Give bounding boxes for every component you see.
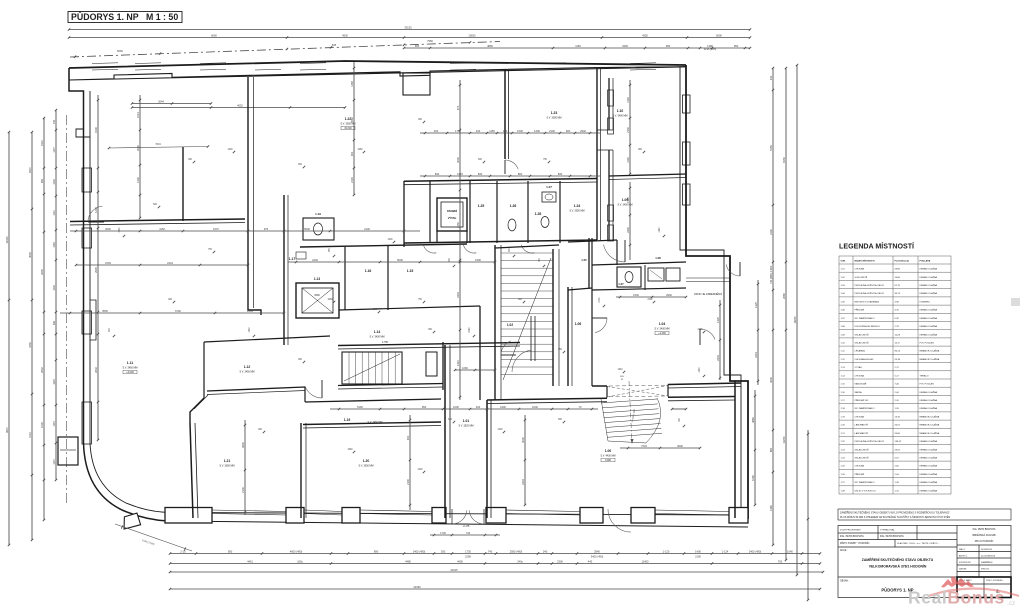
angled pillar at curve end	[122, 513, 141, 529]
svg-text:4461: 4461	[247, 559, 253, 563]
svg-text:PLUS MÍNUS 50 MM S OHLEDEM NA: PLUS MÍNUS 50 MM S OHLEDEM NA SKUTEČNÉ T…	[840, 516, 950, 519]
svg-text:1425: 1425	[754, 302, 758, 308]
svg-text:KERAM. DLAŽBA: KERAM. DLAŽBA	[920, 399, 938, 402]
svg-text:1.26: 1.26	[510, 204, 517, 208]
svg-text:2440: 2440	[626, 227, 630, 233]
svg-text:4860: 4860	[487, 44, 493, 48]
windows right wing inner wall	[608, 90, 614, 106]
svg-text:7019: 7019	[155, 143, 161, 146]
svg-text:NÁZEV MÍSTNOSTI: NÁZEV MÍSTNOSTI	[855, 260, 875, 263]
left dim 4	[55, 110, 57, 480]
svg-text:240: 240	[543, 549, 548, 553]
svg-text:830: 830	[558, 172, 563, 176]
window bottom wall 212-286	[212, 510, 286, 512]
svg-text:1900: 1900	[500, 405, 506, 409]
svg-text:26,80: 26,80	[895, 433, 901, 435]
door 1.12	[305, 386, 322, 398]
svg-text:830: 830	[435, 172, 440, 176]
stair walk line	[629, 381, 632, 444]
wall bottom of small rooms row	[404, 240, 597, 243]
window in facade at x=450	[450, 62, 476, 65]
svg-text:2905: 2905	[40, 269, 44, 275]
svg-text:PŘEDSÍŇ: PŘEDSÍŇ	[855, 309, 865, 312]
wall below 1.12	[207, 387, 305, 391]
door 1.22-1.23	[505, 160, 518, 169]
left dim overall	[8, 132, 10, 545]
svg-text:4505: 4505	[28, 252, 32, 258]
svg-text:7234: 7234	[641, 444, 647, 448]
svg-text:6307: 6307	[28, 167, 32, 173]
svg-text:29,02: 29,02	[895, 449, 901, 451]
svg-text:1637: 1637	[213, 227, 219, 231]
svg-text:860: 860	[518, 172, 523, 176]
svg-text:2644: 2644	[158, 99, 164, 103]
svg-text:950: 950	[422, 405, 427, 409]
svg-text:S.V. 3400 MM: S.V. 3400 MM	[655, 328, 670, 331]
svg-text:4350: 4350	[642, 33, 648, 37]
svg-text:OZN.: OZN.	[841, 261, 847, 263]
bottom dim 1	[170, 553, 820, 555]
windows in right outer wall	[683, 95, 691, 113]
svg-text:2100: 2100	[697, 329, 703, 331]
svg-text:4.750: 4.750	[382, 341, 389, 344]
fan staircase flight below opening	[601, 398, 662, 443]
svg-text:KERAM. DLAŽBA: KERAM. DLAŽBA	[920, 448, 938, 451]
left wall niche 2	[90, 300, 96, 340]
top dim 2	[69, 37, 750, 39]
svg-text:ARCH Č.: ARCH Č.	[959, 554, 968, 557]
svg-text:1625: 1625	[53, 379, 56, 385]
svg-text:KERAM. DLAŽBA: KERAM. DLAŽBA	[920, 292, 938, 295]
svg-text:1158: 1158	[350, 81, 354, 87]
svg-text:1242: 1242	[94, 207, 98, 213]
svg-text:11400: 11400	[641, 559, 649, 563]
svg-text:105y: 105y	[297, 559, 303, 563]
window in facade at x=200	[200, 62, 226, 65]
svg-text:1.16: 1.16	[365, 269, 372, 273]
svg-text:ČÍSLO VÝKRESU: ČÍSLO VÝKRESU	[986, 579, 1003, 582]
svg-text:KERAM. DLAŽBA: KERAM. DLAŽBA	[920, 407, 938, 410]
red swoosh	[928, 589, 1019, 597]
svg-text:13820: 13820	[468, 33, 476, 37]
left dim 2	[31, 132, 33, 540]
wall top of small rooms row	[404, 179, 597, 182]
svg-text:2602: 2602	[94, 367, 98, 373]
svg-text:1900: 1900	[53, 285, 56, 291]
elevator shaft 1.13	[296, 283, 339, 318]
svg-text:1150: 1150	[575, 44, 581, 48]
pillar bottom x=165	[165, 508, 212, 524]
svg-text:VLASTNÍK : P.H.D., a.s., TEXTI: VLASTNÍK : P.H.D., a.s., TEXTIL-ODĚVY-..…	[897, 542, 940, 545]
svg-text:KANCELÁŘ: KANCELÁŘ	[855, 383, 867, 386]
svg-text:SKLAD ZBOŽÍ: SKLAD ZBOŽÍ	[855, 342, 870, 345]
right dim 2	[772, 68, 774, 545]
window in facade at x=92	[92, 62, 118, 65]
door in 1.04 left wall	[700, 329, 715, 340]
svg-text:1335: 1335	[626, 197, 630, 203]
svg-text:MRAMOR. DLAŽBA: MRAMOR. DLAŽBA	[920, 358, 940, 361]
svg-text:2150: 2150	[456, 222, 460, 228]
svg-text:1014: 1014	[136, 112, 140, 118]
svg-text:1060: 1060	[357, 149, 363, 151]
svg-text:S.V. 3000 MM: S.V. 3000 MM	[220, 465, 235, 468]
svg-text:980: 980	[40, 178, 44, 183]
right dim 1	[757, 280, 759, 385]
svg-text:13,45: 13,45	[895, 416, 901, 418]
outer wall: left side	[69, 68, 84, 443]
svg-text:1400: 1400	[497, 429, 503, 431]
window in facade at x=300	[300, 62, 326, 65]
svg-text:5150: 5150	[769, 145, 773, 151]
svg-text:PLOCHA (m2): PLOCHA (m2)	[895, 260, 910, 263]
wall between 1.21 and 1.20	[300, 423, 302, 518]
svg-text:4000: 4000	[769, 377, 773, 383]
svg-text:1400: 1400	[699, 367, 701, 373]
svg-text:1400: 1400	[695, 549, 701, 553]
svg-text:2140: 2140	[769, 229, 773, 235]
window bottom wall 506-580	[506, 510, 580, 512]
svg-text:1060: 1060	[347, 449, 353, 451]
svg-text:100: 100	[503, 129, 508, 133]
svg-text:KERAM. DLAŽBA: KERAM. DLAŽBA	[920, 481, 938, 484]
main entrance double door	[453, 510, 467, 524]
svg-text:KERAM. DLAŽBA: KERAM. DLAŽBA	[920, 457, 938, 460]
svg-text:ZAMĚŘENÍ: ZAMĚŘENÍ	[981, 561, 993, 564]
pillar bottom x=580	[580, 508, 603, 524]
svg-text:2100: 2100	[406, 479, 410, 485]
dashed opening above fan stairs	[607, 386, 668, 398]
svg-text:1100: 1100	[626, 157, 630, 163]
svg-text:ÚKLID S VÝLEVKOU: ÚKLID S VÝLEVKOU	[855, 489, 876, 492]
svg-text:7950: 7950	[427, 39, 433, 43]
svg-text:S.V. 3000 MM: S.V. 3000 MM	[570, 210, 585, 213]
svg-text:VYPRACOVAL: VYPRACOVAL	[880, 529, 895, 532]
door from corridor 1.06 into 1.04	[595, 318, 607, 333]
svg-text:PVC PODLAH.: PVC PODLAH.	[920, 383, 935, 386]
svg-text:S.V. 3450 MM: S.V. 3450 MM	[368, 421, 383, 424]
chimney block below facade	[403, 73, 430, 95]
curved bottom-left wall inner	[90, 91, 170, 513]
svg-text:ZAMĚŘENÍ SKUTEČNÉHO STAVU OBJE: ZAMĚŘENÍ SKUTEČNÉHO STAVU OBJEKTU	[862, 557, 934, 562]
svg-text:KERAM. DLAŽBA: KERAM. DLAŽBA	[920, 325, 938, 328]
svg-text:1240: 1240	[617, 369, 623, 371]
svg-text:1240: 1240	[659, 227, 661, 233]
svg-text:1150: 1150	[489, 129, 495, 133]
diagonal wall	[190, 398, 204, 423]
svg-text:LABORATOŘ: LABORATOŘ	[855, 424, 869, 427]
door in wall y=221 left	[88, 206, 103, 222]
window bottom wall 655-729	[655, 510, 729, 512]
svg-text:S.V. 3450 MM: S.V. 3450 MM	[240, 371, 255, 374]
left wall niche	[76, 129, 90, 137]
svg-text:ZAMĚŘENÍ SKUTEČNÉHO STAVU OBJE: ZAMĚŘENÍ SKUTEČNÉHO STAVU OBJEKTU BYLO P…	[840, 512, 950, 515]
svg-text:AKCE :: AKCE :	[840, 549, 848, 552]
svg-text:2400 (490): 2400 (490)	[749, 549, 762, 553]
svg-text:CHODBA: CHODBA	[855, 268, 865, 271]
svg-text:450: 450	[53, 119, 56, 124]
door at stair bottom	[512, 350, 531, 372]
svg-text:BRNĚNSKÁ 4104/14B: BRNĚNSKÁ 4104/14B	[972, 534, 996, 537]
svg-text:5600: 5600	[716, 33, 722, 37]
svg-text:1.25: 1.25	[478, 204, 485, 208]
svg-text:1060: 1060	[327, 299, 333, 301]
svg-text:1.02: 1.02	[507, 323, 513, 327]
svg-text:4480: 4480	[405, 559, 411, 563]
red roofs logo	[941, 576, 974, 588]
svg-text:860: 860	[769, 447, 773, 452]
svg-text:1.07: 1.07	[618, 282, 624, 286]
svg-text:SKLAD ZBOŽÍ: SKLAD ZBOŽÍ	[855, 333, 870, 336]
door arc at bottom right entrance	[608, 509, 631, 532]
svg-text:10250: 10250	[782, 436, 786, 444]
svg-text:KERAM. DLAŽBA: KERAM. DLAŽBA	[920, 473, 938, 476]
svg-text:1.20: 1.20	[363, 459, 370, 463]
svg-text:3640: 3640	[677, 444, 683, 448]
svg-text:1900: 1900	[475, 258, 481, 262]
svg-text:2100: 2100	[350, 177, 354, 183]
door wing	[726, 264, 740, 276]
wall between 1.10 and 1.09	[609, 174, 686, 176]
svg-text:1.15: 1.15	[407, 269, 414, 273]
svg-text:1.21: 1.21	[224, 459, 231, 463]
svg-text:26,07: 26,07	[895, 425, 901, 427]
svg-text:440: 440	[588, 559, 593, 563]
svg-text:1.27: 1.27	[546, 185, 552, 189]
wc room top x=313	[303, 218, 334, 240]
wall x=404 left of elevator lobby	[403, 181, 405, 247]
svg-text:139,42: 139,42	[895, 441, 902, 443]
svg-text:4052: 4052	[237, 103, 243, 107]
svg-text:1503: 1503	[105, 261, 111, 265]
svg-text:1.24: 1.24	[574, 204, 581, 208]
svg-text:VELKOMORAVSKÁ 378/1 HODONÍN: VELKOMORAVSKÁ 378/1 HODONÍN	[869, 564, 927, 569]
svg-text:ZAK.Č.: ZAK.Č.	[959, 548, 966, 551]
svg-text:1400: 1400	[387, 239, 393, 241]
svg-text:2640: 2640	[105, 227, 111, 231]
wc fixtures small rooms	[508, 219, 516, 231]
corridor 1.06 and room 1.05 walls	[567, 287, 569, 386]
svg-text:0.000: 0.000	[605, 459, 612, 462]
svg-text:2404: 2404	[456, 292, 460, 298]
svg-text:STUPEŇ PD: STUPEŇ PD	[959, 561, 971, 564]
svg-text:CHODBA: CHODBA	[855, 415, 865, 418]
svg-text:S.V. 3000 MM: S.V. 3000 MM	[359, 465, 374, 468]
svg-text:18,80: 18,80	[895, 277, 901, 279]
svg-text:1530: 1530	[517, 129, 523, 133]
outer wall: bottom (yard facade) with pillars	[168, 521, 748, 527]
svg-text:2100: 2100	[599, 297, 601, 303]
svg-text:KERAM. DLAŽBA: KERAM. DLAŽBA	[920, 440, 938, 443]
svg-text:MRAMOR. DLAŽBA: MRAMOR. DLAŽBA	[920, 424, 940, 427]
svg-text:1.28: 1.28	[535, 212, 542, 216]
svg-text:8150: 8150	[782, 157, 786, 163]
wall x=183 top-left	[182, 147, 184, 221]
door big top right corridor	[604, 245, 626, 262]
svg-text:2680: 2680	[782, 293, 786, 299]
svg-text:ZODP.PROJEKTANT: ZODP.PROJEKTANT	[840, 529, 861, 532]
svg-text:02-01/09/2015: 02-01/09/2015	[981, 555, 996, 557]
svg-text:2258: 2258	[465, 555, 471, 559]
double wall between 1.23 and 1.10	[596, 68, 598, 241]
window left wall y=402	[82, 402, 92, 444]
svg-text:1.19: 1.19	[315, 212, 321, 216]
svg-text:S.V. 3520 MM: S.V. 3520 MM	[459, 425, 474, 428]
interior dimension chains	[420, 132, 600, 134]
wall bottom of 1.19 corridor	[303, 422, 441, 425]
svg-text:KERAM. DLAŽBA: KERAM. DLAŽBA	[920, 309, 938, 312]
svg-text:PVC PODLAH.: PVC PODLAH.	[920, 342, 935, 345]
svg-text:24015: 24015	[450, 568, 458, 572]
svg-text:1.04: 1.04	[659, 322, 666, 326]
svg-text:9807: 9807	[5, 427, 9, 433]
svg-text:KUCHYŇKA SE ŠATNOU: KUCHYŇKA SE ŠATNOU	[855, 325, 881, 328]
right dim lower	[807, 430, 809, 600]
pillar bottom x=432	[432, 508, 446, 524]
svg-text:1640: 1640	[532, 405, 538, 409]
svg-text:14305: 14305	[5, 236, 9, 244]
upper wall of 1.12	[204, 336, 330, 342]
svg-text:PRODEJNA ODĚVŮ A OBUVI: PRODEJNA ODĚVŮ A OBUVI	[855, 440, 885, 443]
svg-text:1.10: 1.10	[617, 109, 624, 113]
svg-text:1040: 1040	[787, 549, 793, 553]
overall top dim	[69, 29, 750, 31]
svg-text:TERACO: TERACO	[920, 374, 929, 377]
window in facade at x=630	[630, 62, 656, 65]
svg-text:SKLAD ZBOŽÍ: SKLAD ZBOŽÍ	[855, 457, 870, 460]
stairwell 1.02 walls	[494, 245, 496, 400]
svg-text:SCHODIŠTĚ: SCHODIŠTĚ	[855, 276, 868, 279]
window left wall y=311	[82, 311, 92, 334]
svg-text:1000: 1000	[453, 405, 459, 409]
svg-text:1400: 1400	[227, 149, 233, 151]
partitions rooms 1.15-1.18	[300, 244, 467, 247]
svg-text:OBSAH :: OBSAH :	[840, 580, 850, 583]
dim chain y=104	[132, 103, 211, 105]
svg-text:2404: 2404	[312, 258, 318, 262]
svg-text:1425: 1425	[716, 317, 720, 323]
svg-text:S.V. 3400 MM: S.V. 3400 MM	[370, 336, 385, 339]
svg-text:950: 950	[734, 44, 739, 48]
svg-text:26,38: 26,38	[895, 359, 901, 361]
svg-text:MRAMOR. DLAŽBA: MRAMOR. DLAŽBA	[920, 432, 940, 435]
svg-text:16,17: 16,17	[895, 343, 901, 345]
door arcs small rooms into corridor	[423, 245, 436, 253]
svg-text:4712: 4712	[28, 432, 32, 438]
svg-text:+1.300: +1.300	[658, 332, 666, 335]
svg-text:2940: 2940	[594, 549, 600, 553]
svg-text:845: 845	[332, 43, 337, 47]
svg-text:2602: 2602	[40, 367, 44, 373]
svg-text:1.11: 1.11	[127, 361, 134, 365]
axis chain line left wall	[66, 115, 68, 505]
svg-text:1545: 1545	[40, 422, 44, 428]
svg-text:-0.178: -0.178	[463, 525, 470, 528]
wall x=284 long	[283, 195, 285, 345]
left dim 3	[43, 118, 45, 520]
svg-text:09/2015: 09/2015	[981, 569, 990, 571]
svg-text:RealBonus: RealBonus	[908, 588, 1005, 608]
svg-text:PODLAHA: PODLAHA	[920, 260, 931, 263]
svg-text:6792: 6792	[175, 309, 181, 313]
svg-text:CHODBA: CHODBA	[855, 465, 865, 468]
svg-text:2404: 2404	[754, 352, 758, 358]
svg-text:2590: 2590	[314, 294, 320, 297]
boarded window OKNO JE ZABEDNENO	[686, 278, 730, 282]
svg-text:4860: 4860	[751, 417, 755, 423]
pillar bottom x=286	[286, 508, 304, 524]
svg-text:5000: 5000	[304, 227, 310, 231]
svg-text:PŘEDSÍŇ WC: PŘEDSÍŇ WC	[855, 399, 869, 402]
right dim 3	[785, 68, 787, 560]
svg-text:PŘEDSÍŇ: PŘEDSÍŇ	[855, 473, 865, 476]
svg-text:3000: 3000	[456, 157, 460, 163]
svg-text:975: 975	[456, 105, 460, 110]
right dim overall	[796, 65, 798, 575]
svg-text:440: 440	[769, 75, 773, 80]
svg-text:WC ZAMĚSTNANCI: WC ZAMĚSTNANCI	[855, 317, 875, 320]
svg-text:PŮDORYS 1. NP M 1 : 50: PŮDORYS 1. NP M 1 : 50	[71, 11, 178, 22]
svg-text:MÍSTO STAVBY : HODONÍN: MÍSTO STAVBY : HODONÍN	[840, 542, 870, 545]
pillar block lower-left	[58, 437, 78, 465]
svg-text:1400 (490): 1400 (490)	[413, 549, 426, 553]
svg-text:S.V. 4430 MM: S.V. 4430 MM	[601, 455, 616, 458]
title box PUDORYS 1. NP	[68, 12, 182, 23]
svg-text:4150: 4150	[28, 342, 32, 348]
svg-text:1730: 1730	[465, 549, 471, 553]
svg-text:1.06: 1.06	[575, 322, 582, 326]
svg-text:LÉKÁRNA: LÉKÁRNA	[855, 350, 866, 353]
svg-text:4600 (490): 4600 (490)	[290, 549, 303, 553]
svg-text:2404: 2404	[521, 479, 525, 485]
svg-text:3400 (490): 3400 (490)	[591, 555, 604, 559]
svg-text:28,80: 28,80	[895, 269, 901, 271]
svg-text:±0.000: ±0.000	[344, 127, 352, 130]
svg-text:1242: 1242	[53, 210, 56, 216]
pillar bottom x=486	[486, 508, 506, 524]
svg-text:16,28: 16,28	[895, 334, 901, 336]
svg-text:2940: 2940	[580, 129, 586, 133]
svg-text:3550: 3550	[102, 309, 108, 313]
pillar bottom x=631	[631, 508, 655, 524]
svg-text:1060: 1060	[462, 366, 468, 370]
svg-text:3000: 3000	[521, 437, 525, 443]
window bottom wall 304-342	[304, 510, 342, 512]
svg-text:240y: 240y	[517, 559, 523, 563]
svg-text:740: 740	[488, 549, 493, 553]
svg-text:1.14: 1.14	[374, 330, 381, 334]
window left wall y=228	[82, 228, 92, 248]
wall between 1.22 and 1.23	[504, 69, 506, 159]
svg-text:1060: 1060	[53, 242, 56, 248]
svg-text:900: 900	[406, 435, 410, 440]
sloping chain dimension	[70, 42, 500, 58]
curved bottom-left wall outer	[84, 443, 169, 521]
svg-text:2100: 2100	[647, 299, 653, 301]
svg-text:1240: 1240	[136, 177, 140, 183]
svg-text:950: 950	[666, 44, 671, 48]
pillar bottom x=729	[729, 508, 748, 524]
svg-text:2905: 2905	[94, 267, 98, 273]
svg-text:2950 (490): 2950 (490)	[510, 549, 523, 553]
window in facade at x=255	[255, 62, 281, 65]
window bottom wall 360-432	[360, 510, 432, 512]
svg-text:1400: 1400	[249, 327, 251, 333]
bottom dim 2	[170, 563, 820, 565]
svg-text:KOBEREC: KOBEREC	[920, 301, 931, 303]
svg-text:86,13: 86,13	[895, 351, 901, 353]
svg-text:1060: 1060	[119, 227, 121, 233]
svg-text:KERAM. DLAŽBA: KERAM. DLAŽBA	[920, 317, 938, 320]
